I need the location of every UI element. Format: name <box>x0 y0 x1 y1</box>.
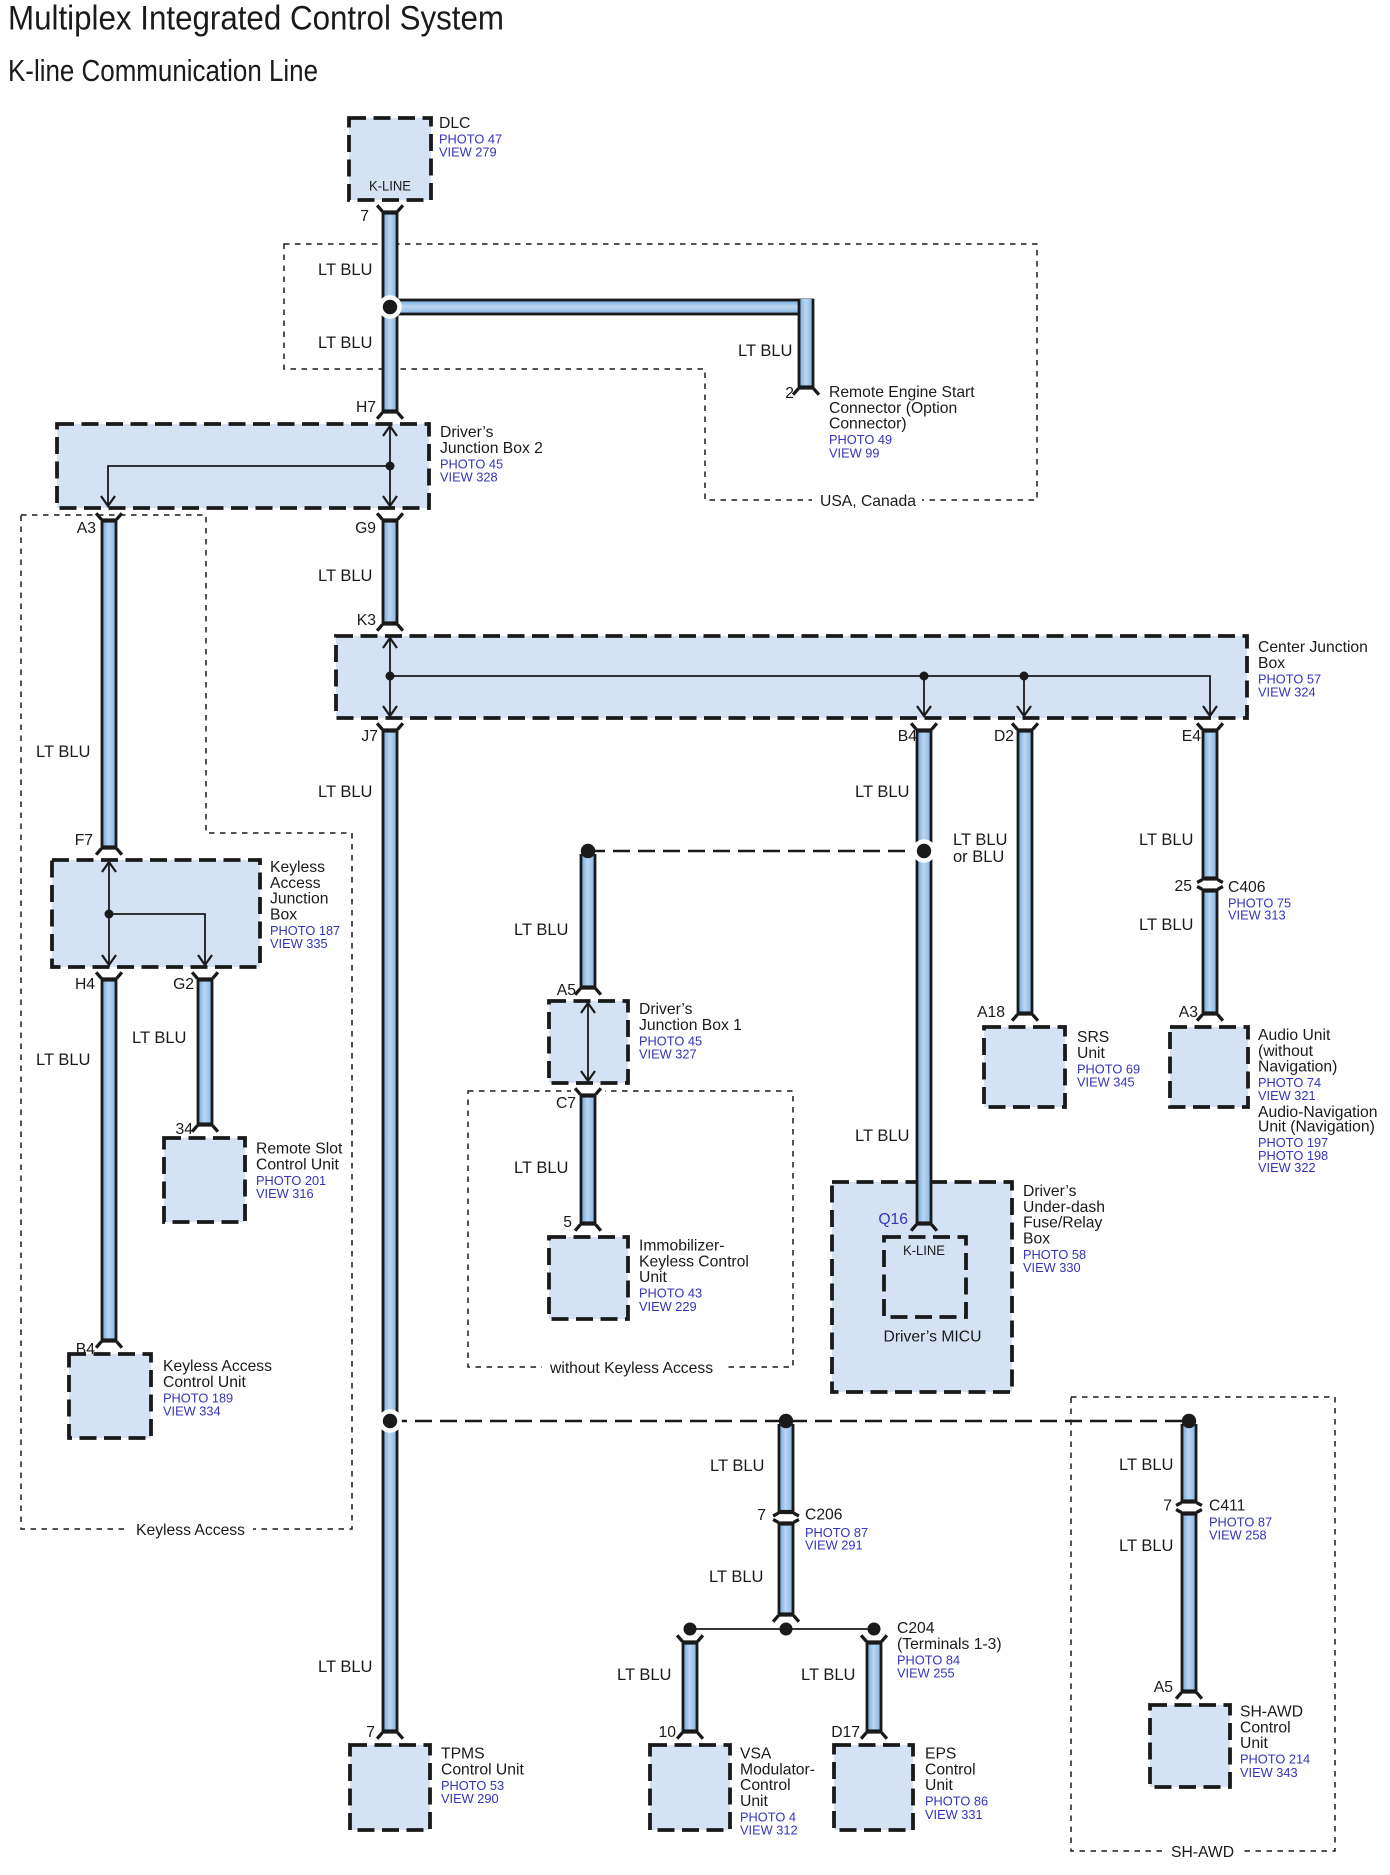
box Audio Unit <box>1170 1027 1248 1107</box>
svg-text:Control: Control <box>740 1777 791 1794</box>
svg-text:LT BLU: LT BLU <box>710 1457 764 1475</box>
svg-text:LT BLU: LT BLU <box>514 1159 568 1177</box>
wire K-line branch to VSA/EPS and SH-AWD (dashed) <box>390 1420 1189 1423</box>
svg-text:H7: H7 <box>356 399 376 416</box>
wire C406 to Audio A3 (LT BLU) <box>1202 890 1219 1014</box>
connector terminal Remote Slot pin 34 <box>197 1123 214 1126</box>
svg-text:C204: C204 <box>897 1620 935 1637</box>
svg-text:Keyless Access: Keyless Access <box>163 1358 272 1375</box>
wire C204 bus (terminals 1-3) <box>690 1628 874 1630</box>
svg-text:LT BLU: LT BLU <box>132 1029 186 1047</box>
label block Immobilizer-Keyless Control Unit <box>639 1238 749 1314</box>
svg-text:F7: F7 <box>75 832 93 849</box>
junction CJB node K3 <box>386 672 395 681</box>
box Driver's Junction Box 2 <box>57 424 429 508</box>
svg-text:LT BLU: LT BLU <box>318 261 372 279</box>
svg-text:7: 7 <box>757 1507 766 1524</box>
svg-text:EPS: EPS <box>925 1746 956 1763</box>
connector terminal G2 <box>197 977 214 980</box>
svg-text:5: 5 <box>563 1214 572 1231</box>
svg-text:LT BLU: LT BLU <box>855 1127 909 1145</box>
arrow out DJB2 bottom A3 <box>101 496 115 506</box>
svg-text:G9: G9 <box>355 520 376 537</box>
label block Driver's Junction Box 1 <box>639 1001 742 1062</box>
junction C204 node VSA <box>684 1623 697 1636</box>
wire drop to Remote Engine Start pin 2 <box>798 299 815 388</box>
svg-text:without Keyless Access: without Keyless Access <box>549 1360 713 1377</box>
svg-text:Remote Engine Start: Remote Engine Start <box>829 384 975 401</box>
wire K-line branch to Driver's Junction Box 1 (dashed) <box>588 850 924 853</box>
svg-text:K-LINE: K-LINE <box>369 179 411 194</box>
svg-text:LT BLU: LT BLU <box>617 1666 671 1684</box>
svg-text:LT BLU: LT BLU <box>1119 1456 1173 1474</box>
label block Driver's Under-dash Fuse/Relay Box <box>1023 1183 1105 1275</box>
svg-text:Keyless Access: Keyless Access <box>136 1522 245 1539</box>
svg-text:VIEW 291: VIEW 291 <box>805 1538 863 1553</box>
wire internal bus CJB horizontal <box>390 676 1210 716</box>
svg-text:LT BLU: LT BLU <box>738 342 792 360</box>
svg-text:VIEW 322: VIEW 322 <box>1258 1160 1316 1175</box>
label block Audio-Navigation Unit <box>1258 1104 1377 1175</box>
svg-text:Driver’s: Driver’s <box>639 1001 693 1018</box>
label block TPMS Control Unit <box>441 1746 524 1807</box>
wire internal branch DJB2 to A3 <box>108 466 390 506</box>
label block Keyless Access Junction Box <box>270 859 340 951</box>
junction node at DJB1 branch <box>581 844 595 858</box>
svg-text:Unit: Unit <box>740 1793 769 1810</box>
connector terminal D2 <box>1017 728 1034 731</box>
connector terminal B4 (CJB) <box>916 728 933 731</box>
svg-text:USA, Canada: USA, Canada <box>820 493 916 510</box>
wire E4 to C406 pin 25 (LT BLU) <box>1202 730 1219 879</box>
wire A3 to F7 (LT BLU) <box>101 520 118 848</box>
svg-text:DLC: DLC <box>439 115 470 132</box>
connector terminal C7 <box>580 1093 597 1096</box>
svg-text:K3: K3 <box>357 612 376 629</box>
svg-text:LT BLU: LT BLU <box>318 783 372 801</box>
label block VSA Modulator-Control Unit <box>740 1746 815 1838</box>
svg-text:LT BLU: LT BLU <box>36 743 90 761</box>
svg-text:VIEW 290: VIEW 290 <box>441 1791 499 1806</box>
svg-text:Control Unit: Control Unit <box>441 1761 524 1778</box>
svg-text:VIEW 321: VIEW 321 <box>1258 1088 1316 1103</box>
svg-text:(Terminals 1-3): (Terminals 1-3) <box>897 1636 1002 1653</box>
connector terminal VSA pin 10 <box>682 1730 699 1733</box>
wire C204 to EPS D17 (LT BLU) <box>866 1642 883 1732</box>
label block EPS Control Unit <box>925 1746 988 1822</box>
svg-text:LT BLU: LT BLU <box>1139 916 1193 934</box>
connector terminal H7 <box>382 410 399 413</box>
wire J7 to TPMS pin 7 (LT BLU) <box>382 730 399 1732</box>
svg-text:D17: D17 <box>831 1724 860 1741</box>
svg-text:VIEW 328: VIEW 328 <box>440 470 498 485</box>
junction node at C411 branch <box>1182 1414 1196 1428</box>
svg-text:Control Unit: Control Unit <box>163 1374 246 1391</box>
svg-text:LT BLU: LT BLU <box>1119 1537 1173 1555</box>
svg-text:K-LINE: K-LINE <box>903 1242 945 1258</box>
svg-text:Q16: Q16 <box>878 1211 908 1228</box>
junction CJB node B4 <box>920 672 929 681</box>
svg-text:C411: C411 <box>1209 1498 1245 1515</box>
label block C204 <box>897 1620 1002 1681</box>
wire internal bus KAJB F7-H4 <box>108 860 110 967</box>
svg-text:LT BLU: LT BLU <box>709 1568 763 1586</box>
svg-text:A18: A18 <box>977 1004 1005 1021</box>
wire D2 to SRS A18 (LT BLU) <box>1017 730 1034 1014</box>
arrow into CJB top K3 <box>383 638 397 648</box>
svg-text:10: 10 <box>659 1724 677 1741</box>
svg-text:Driver’s: Driver’s <box>1023 1183 1077 1200</box>
label block DLC <box>439 115 502 160</box>
label block Driver's Junction Box 2 <box>440 424 543 485</box>
box Keyless Access Control Unit <box>69 1354 151 1438</box>
wire internal bus DJB1 A5-C7 <box>587 1001 589 1083</box>
svg-text:B4: B4 <box>76 1341 95 1358</box>
junction C204 node center <box>780 1623 793 1636</box>
dashed enclosure USA Canada <box>284 244 1037 500</box>
connector terminal TPMS pin 7 <box>382 1730 399 1733</box>
svg-text:Unit: Unit <box>1077 1045 1106 1062</box>
wire C411 to SH-AWD A5 (LT BLU) <box>1181 1513 1198 1692</box>
svg-text:H4: H4 <box>75 976 95 993</box>
svg-text:VIEW 279: VIEW 279 <box>439 145 497 160</box>
junction node at C206 branch <box>779 1414 793 1428</box>
svg-text:VIEW 335: VIEW 335 <box>270 936 328 951</box>
junction KAJB internal node <box>105 910 114 919</box>
connector terminal C206 lower half <box>778 1521 795 1524</box>
label block Center Junction Box <box>1258 639 1368 700</box>
svg-text:Fuse/Relay: Fuse/Relay <box>1023 1215 1102 1232</box>
svg-text:VIEW 327: VIEW 327 <box>639 1047 697 1062</box>
svg-text:LT BLU: LT BLU <box>318 1658 372 1676</box>
arrow out KAJB bottom H4 <box>102 955 116 965</box>
box Keyless Access Junction Box <box>52 860 260 967</box>
svg-text:VIEW 330: VIEW 330 <box>1023 1260 1081 1275</box>
box Center Junction Box <box>336 636 1247 718</box>
arrow into KAJB top F7 <box>102 862 116 872</box>
svg-text:Driver’s: Driver’s <box>440 424 494 441</box>
connector terminal Remote Engine Start pin 2 <box>798 386 815 389</box>
arrow into DJB1 top A5 <box>581 1003 595 1013</box>
wire internal bus CJB K3-J7 <box>389 636 391 718</box>
svg-text:TPMS: TPMS <box>441 1746 485 1763</box>
svg-text:B4: B4 <box>898 728 917 745</box>
svg-text:7: 7 <box>366 1724 375 1741</box>
connector terminal DLC pin 7 <box>382 210 399 213</box>
svg-text:VIEW 229: VIEW 229 <box>639 1299 697 1314</box>
wire C206 to C204 (LT BLU) <box>778 1523 795 1615</box>
svg-text:Keyless: Keyless <box>270 859 325 876</box>
connector terminal C411 pin 7 upper half <box>1181 1500 1198 1503</box>
svg-text:Unit: Unit <box>925 1777 954 1794</box>
svg-text:Keyless Control: Keyless Control <box>639 1253 749 1270</box>
svg-text:7: 7 <box>1163 1498 1172 1515</box>
wire internal branch KAJB to G2 <box>109 914 205 965</box>
svg-text:Box: Box <box>1023 1230 1050 1247</box>
wire C7 to Immobilizer pin 5 (LT BLU) <box>580 1095 597 1224</box>
svg-text:Audio Unit: Audio Unit <box>1258 1027 1331 1044</box>
svg-text:VIEW 343: VIEW 343 <box>1240 1765 1298 1780</box>
svg-text:D2: D2 <box>994 728 1014 745</box>
connector terminal J7 <box>382 728 399 731</box>
wire C204 to VSA pin 10 (LT BLU) <box>682 1642 699 1732</box>
connector terminal C406 lower half <box>1202 888 1219 891</box>
arrow out CJB bottom D2 <box>1017 706 1031 716</box>
label block Remote Slot Control Unit <box>256 1141 343 1202</box>
svg-text:LT BLU: LT BLU <box>318 567 372 585</box>
svg-text:Multiplex Integrated Control S: Multiplex Integrated Control System <box>8 0 504 38</box>
wire internal CJB drop D2 <box>1023 676 1025 716</box>
svg-text:7: 7 <box>360 208 369 225</box>
junction DJB2 internal node <box>386 462 395 471</box>
svg-text:Access: Access <box>270 875 321 892</box>
svg-text:C406: C406 <box>1228 879 1266 896</box>
wire branch to Remote Engine Start (LT BLU) <box>396 299 814 316</box>
svg-text:LT BLU: LT BLU <box>318 334 372 352</box>
arrow into DJB2 top <box>383 426 397 436</box>
box Driver's Junction Box 1 <box>549 1001 628 1083</box>
svg-text:Center Junction: Center Junction <box>1258 639 1368 656</box>
connector terminal DJB1 A5 <box>580 986 597 989</box>
svg-text:Immobilizer-: Immobilizer- <box>639 1238 724 1255</box>
svg-text:Junction: Junction <box>270 891 328 908</box>
connector terminal EPS branch top <box>866 1640 883 1643</box>
svg-text:LT BLU: LT BLU <box>953 831 1007 849</box>
svg-text:G2: G2 <box>173 976 194 993</box>
connector terminal F7 <box>101 846 118 849</box>
label wire color LT BLU or BLU <box>953 831 1007 866</box>
svg-text:or BLU: or BLU <box>953 848 1004 866</box>
svg-text:A3: A3 <box>1179 1004 1198 1021</box>
label block Keyless Access Control Unit <box>163 1358 272 1419</box>
connector terminal C406 pin 25 upper half <box>1202 877 1219 880</box>
svg-text:VSA: VSA <box>740 1746 772 1763</box>
svg-text:VIEW 345: VIEW 345 <box>1077 1075 1135 1090</box>
connector terminal Immobilizer pin 5 <box>580 1222 597 1225</box>
box Immobilizer-Keyless Control Unit <box>549 1237 628 1319</box>
svg-text:25: 25 <box>1175 878 1193 895</box>
dashed enclosure Keyless Access <box>21 515 352 1529</box>
label block C411 <box>1209 1498 1272 1543</box>
svg-text:VIEW 99: VIEW 99 <box>829 445 880 460</box>
svg-text:VIEW 255: VIEW 255 <box>897 1666 955 1681</box>
svg-text:A5: A5 <box>1154 1679 1173 1696</box>
connector terminal H4 <box>101 977 118 980</box>
svg-text:E4: E4 <box>1182 728 1201 745</box>
junction DLC branch node <box>378 295 402 319</box>
junction CJB node D2 <box>1020 672 1029 681</box>
wire internal CJB drop B4 <box>923 676 925 716</box>
connector terminal C411 lower half <box>1181 1511 1198 1514</box>
svg-text:Unit: Unit <box>639 1269 668 1286</box>
label block C406 <box>1228 879 1291 922</box>
wire B4 to Q16 (LT BLU or BLU) <box>916 730 933 1224</box>
arrow out CJB bottom B4 <box>917 706 931 716</box>
connector terminal Q16 <box>916 1222 933 1225</box>
svg-text:SH-AWD: SH-AWD <box>1171 1844 1234 1861</box>
svg-text:Junction Box 2: Junction Box 2 <box>440 440 543 457</box>
connector terminal K3 <box>382 622 399 625</box>
connector terminal SH-AWD A5 <box>1181 1690 1198 1693</box>
label block SH-AWD Control Unit <box>1240 1704 1310 1780</box>
svg-text:VIEW 258: VIEW 258 <box>1209 1527 1267 1542</box>
svg-text:Unit (Navigation): Unit (Navigation) <box>1258 1119 1375 1136</box>
svg-text:J7: J7 <box>361 728 378 745</box>
label block Remote Engine Start Connector <box>829 384 975 460</box>
connector terminal VSA branch top <box>682 1640 699 1643</box>
svg-text:LT BLU: LT BLU <box>1139 831 1193 849</box>
connector terminal C206 pin 7 upper half <box>778 1511 795 1514</box>
connector terminal E4 <box>1202 728 1219 731</box>
arrow out DJB1 bottom C7 <box>581 1071 595 1081</box>
box SH-AWD Control Unit <box>1150 1705 1230 1787</box>
box Remote Slot Control Unit <box>164 1138 245 1222</box>
svg-text:VIEW 334: VIEW 334 <box>163 1404 221 1419</box>
svg-text:2: 2 <box>785 385 794 402</box>
svg-text:Control Unit: Control Unit <box>256 1156 339 1173</box>
svg-text:Connector): Connector) <box>829 416 907 433</box>
wire G2 to Remote Slot pin 34 (LT BLU) <box>197 979 214 1125</box>
arrow out DJB2 bottom G9 <box>383 496 397 506</box>
arrow out KAJB bottom G2 <box>198 955 212 965</box>
box TPMS Control Unit <box>350 1745 430 1830</box>
svg-text:VIEW 316: VIEW 316 <box>256 1186 314 1201</box>
wire branch to C206 pin 7 (LT BLU) <box>778 1424 795 1513</box>
box VSA Modulator-Control Unit <box>650 1745 730 1830</box>
svg-text:Connector (Option: Connector (Option <box>829 400 957 417</box>
svg-text:Driver’s MICU: Driver’s MICU <box>884 1329 982 1346</box>
svg-text:LT BLU: LT BLU <box>36 1051 90 1069</box>
box K-LINE connector sub-box (Driver's MICU) <box>884 1237 966 1317</box>
svg-text:Modulator-: Modulator- <box>740 1761 815 1778</box>
svg-text:Junction Box 1: Junction Box 1 <box>639 1017 742 1034</box>
svg-text:A3: A3 <box>77 520 96 537</box>
arrow out CJB bottom J7 <box>383 706 397 716</box>
junction J7 branch node <box>378 1409 402 1433</box>
wire internal bus DJB2 H7-G9 <box>389 424 391 508</box>
dashed enclosure without Keyless Access <box>468 1091 793 1367</box>
svg-text:VIEW 324: VIEW 324 <box>1258 685 1316 700</box>
svg-text:SRS: SRS <box>1077 1029 1109 1046</box>
wire branch to C411 pin 7 (LT BLU) <box>1181 1424 1198 1502</box>
svg-text:SH-AWD: SH-AWD <box>1240 1704 1303 1721</box>
svg-text:LT BLU: LT BLU <box>855 783 909 801</box>
svg-text:Remote Slot: Remote Slot <box>256 1141 343 1158</box>
svg-text:Control: Control <box>1240 1719 1291 1736</box>
svg-text:C206: C206 <box>805 1507 843 1524</box>
wire DLC pin 7 to H7 (LT BLU) <box>382 212 399 412</box>
connector terminal Audio A3 <box>1202 1012 1219 1015</box>
wire branch to DJB1 A5 (LT BLU) <box>580 854 597 988</box>
svg-text:VIEW 312: VIEW 312 <box>740 1823 798 1838</box>
svg-text:34: 34 <box>176 1121 194 1138</box>
box DLC <box>349 118 431 200</box>
box Driver's Under-dash Fuse/Relay Box <box>832 1182 1012 1392</box>
junction B4 branch node <box>912 839 936 863</box>
svg-text:Under-dash: Under-dash <box>1023 1199 1105 1216</box>
connector terminal Keyless Access B4 <box>101 1339 118 1342</box>
box SRS Unit <box>984 1027 1065 1107</box>
svg-text:K-line Communication Line: K-line Communication Line <box>8 54 318 88</box>
junction C204 node EPS <box>868 1623 881 1636</box>
svg-text:VIEW 313: VIEW 313 <box>1228 907 1286 922</box>
connector terminal C206 to C204 end <box>778 1613 795 1616</box>
label block Audio Unit <box>1258 1027 1337 1103</box>
svg-text:C7: C7 <box>556 1095 576 1112</box>
svg-text:Box: Box <box>1258 655 1285 672</box>
svg-text:Navigation): Navigation) <box>1258 1059 1337 1076</box>
svg-text:A5: A5 <box>557 982 576 999</box>
label block SRS Unit <box>1077 1029 1140 1090</box>
box EPS Control Unit <box>834 1745 913 1830</box>
label block C206 <box>805 1507 868 1553</box>
connector terminal SRS A18 <box>1017 1012 1034 1015</box>
svg-text:VIEW 331: VIEW 331 <box>925 1807 983 1822</box>
connector terminal A3 (DJB2) <box>101 518 118 521</box>
wire H4 to B4 keyless (LT BLU) <box>101 979 118 1341</box>
svg-text:(without: (without <box>1258 1043 1314 1060</box>
arrow out CJB bottom E4 <box>1203 706 1217 716</box>
connector terminal EPS D17 <box>866 1730 883 1733</box>
svg-text:Box: Box <box>270 906 297 923</box>
svg-text:LT BLU: LT BLU <box>514 921 568 939</box>
dashed enclosure SH-AWD <box>1071 1397 1335 1851</box>
svg-text:LT BLU: LT BLU <box>801 1666 855 1684</box>
svg-text:Control: Control <box>925 1761 976 1778</box>
connector terminal G9 <box>382 518 399 521</box>
svg-text:Unit: Unit <box>1240 1735 1269 1752</box>
wire G9 to K3 (LT BLU) <box>382 520 399 624</box>
